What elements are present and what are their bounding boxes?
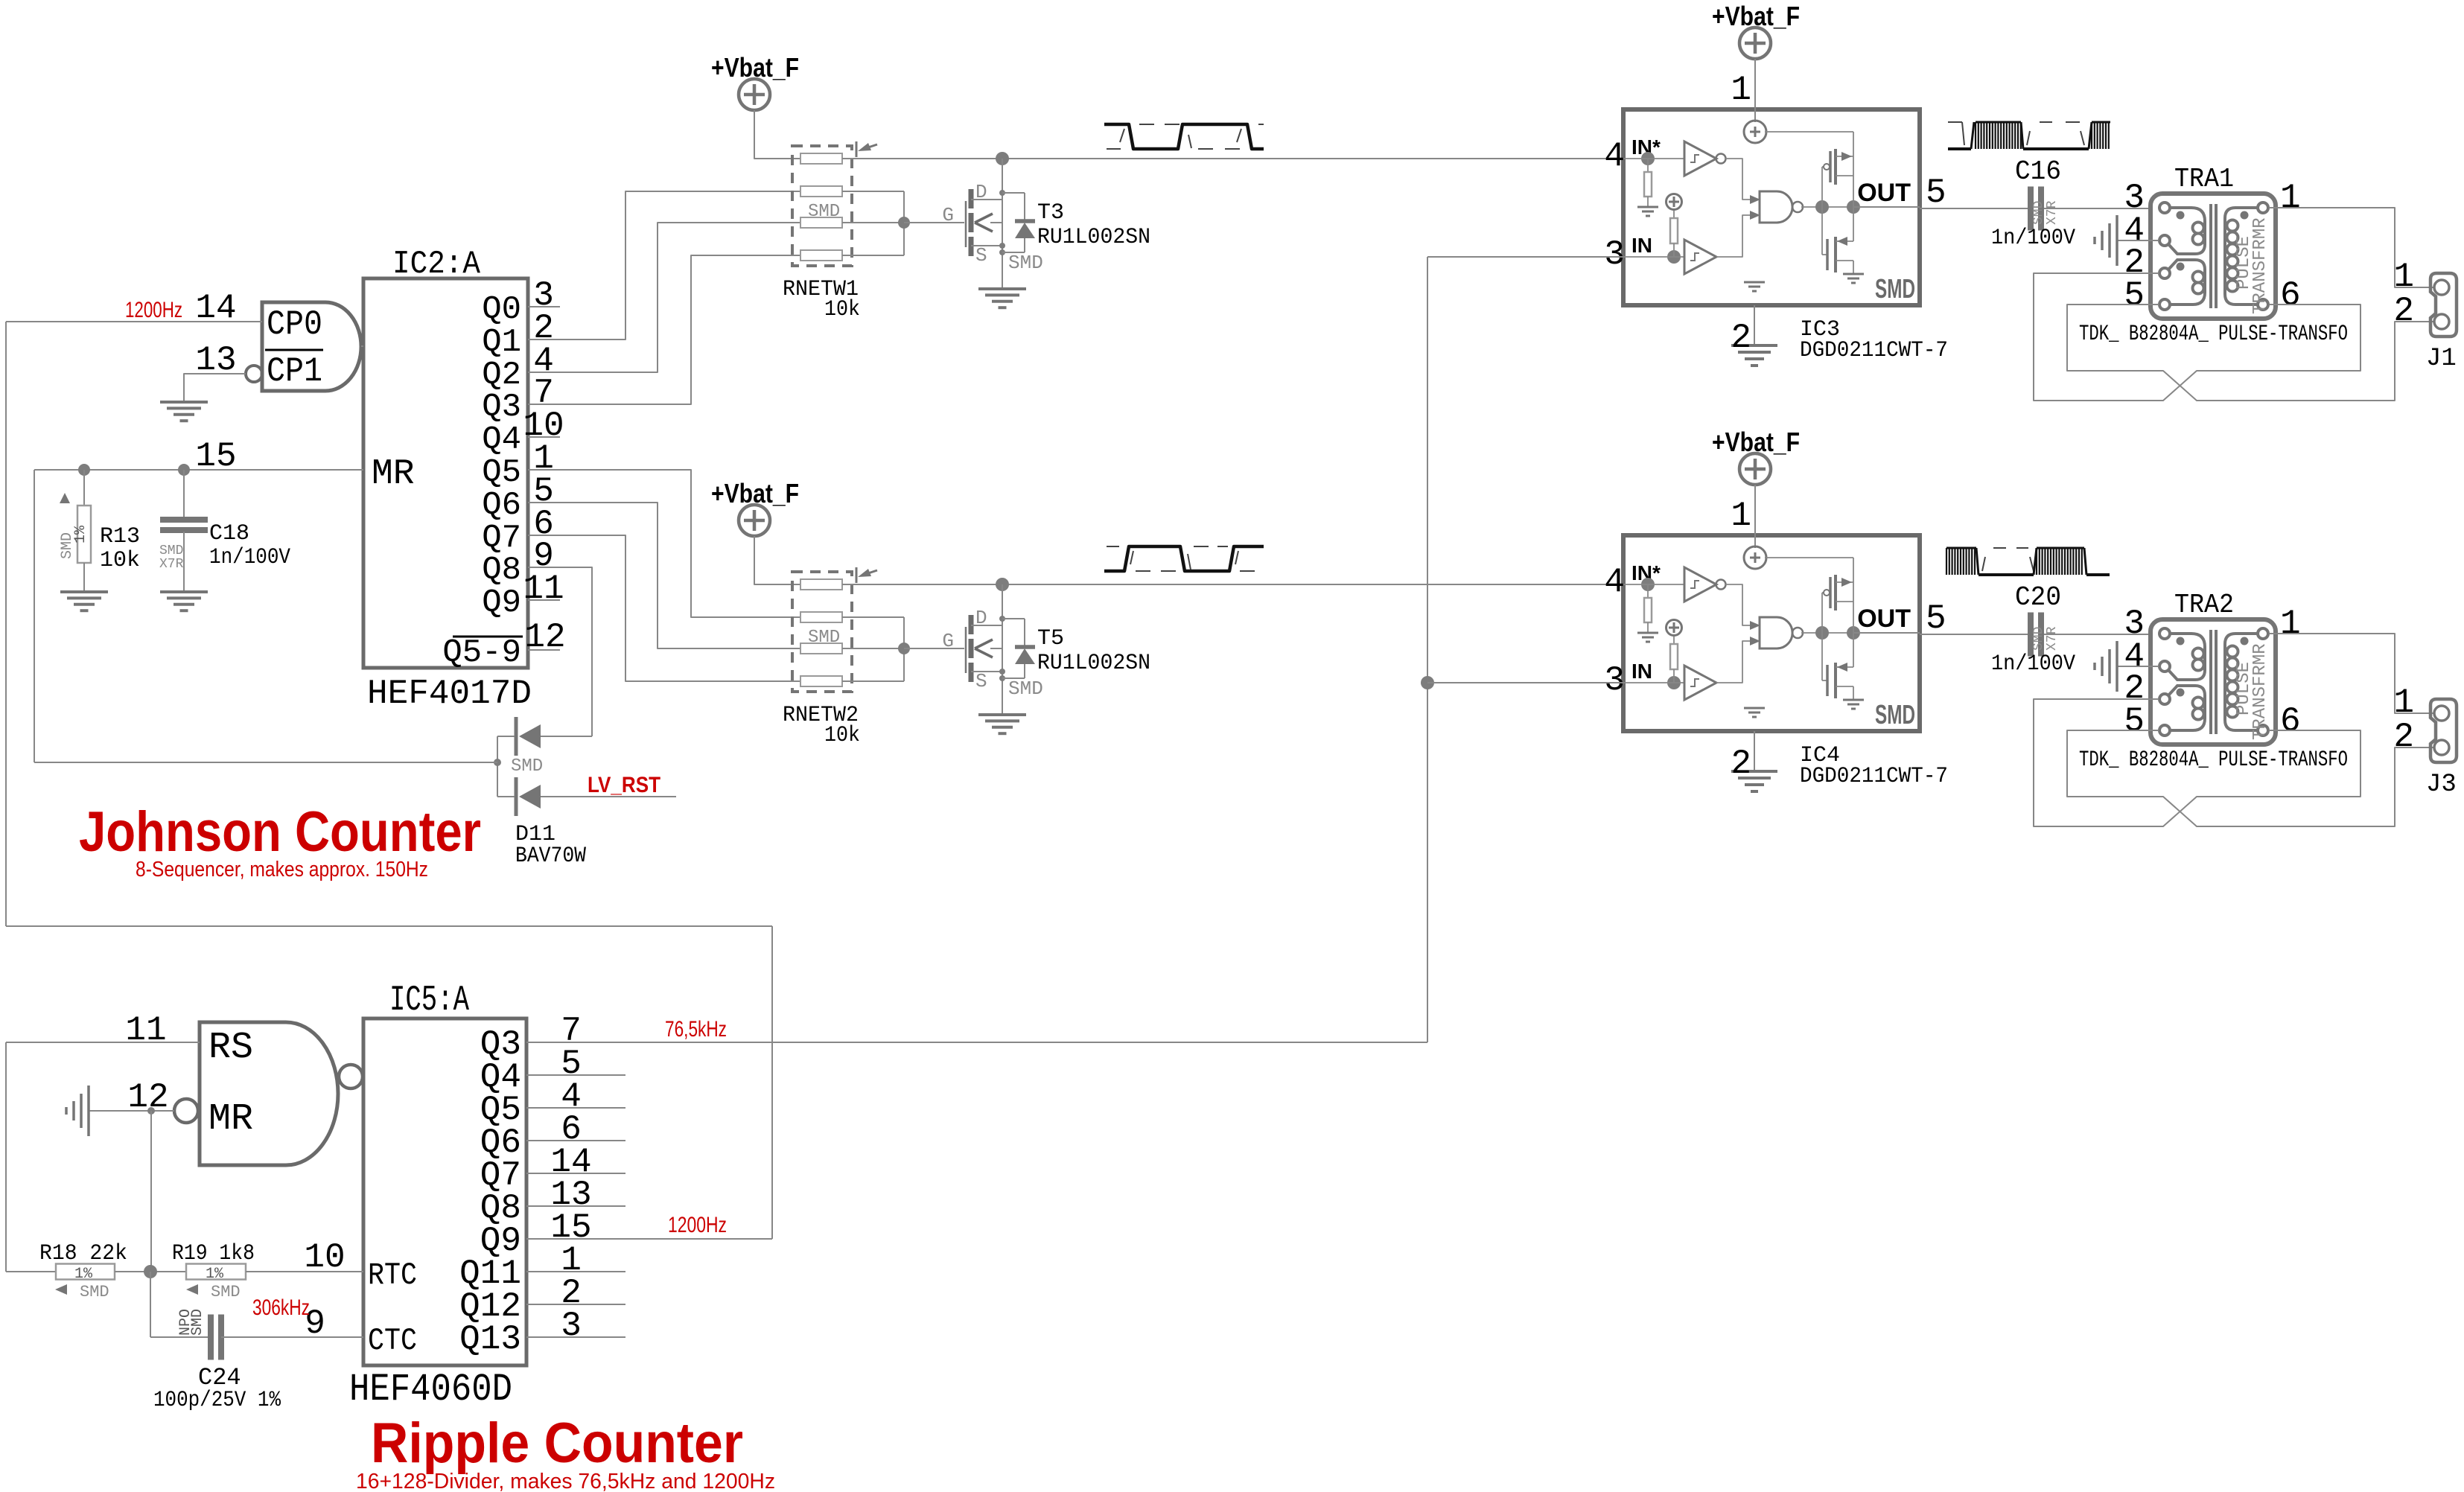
- svg-text:76,5kHz: 76,5kHz: [665, 1017, 727, 1042]
- svg-text:Q13: Q13: [459, 1320, 521, 1359]
- svg-text:MR: MR: [208, 1098, 253, 1141]
- svg-text:11: 11: [125, 1011, 166, 1050]
- svg-text:RU1L002SN: RU1L002SN: [1037, 651, 1150, 676]
- svg-text:5: 5: [2124, 276, 2145, 315]
- svg-text:10k: 10k: [824, 723, 860, 748]
- svg-text:DGD0211CWT-7: DGD0211CWT-7: [1800, 764, 1948, 789]
- svg-text:X7R: X7R: [2045, 626, 2060, 651]
- svg-text:SMD: SMD: [80, 1283, 109, 1301]
- svg-text:1: 1: [2393, 258, 2414, 296]
- svg-text:C20: C20: [2015, 582, 2061, 613]
- svg-text:+Vbat_F: +Vbat_F: [711, 52, 799, 83]
- svg-text:IC5:A: IC5:A: [389, 981, 469, 1021]
- svg-text:Q4: Q4: [482, 421, 521, 459]
- svg-text:5: 5: [1926, 599, 1946, 638]
- svg-text:+Vbat_F: +Vbat_F: [1712, 427, 1800, 457]
- svg-text:R19 1k8: R19 1k8: [172, 1241, 255, 1266]
- svg-text:11: 11: [523, 570, 564, 608]
- svg-text:TDK_ B82804A_ PULSE-TRANSFO: TDK_ B82804A_ PULSE-TRANSFO: [2079, 747, 2348, 773]
- svg-text:3: 3: [1604, 661, 1625, 700]
- svg-text:6: 6: [2280, 276, 2301, 315]
- svg-text:R13: R13: [100, 524, 140, 549]
- svg-text:3: 3: [1604, 235, 1625, 274]
- svg-text:1200Hz: 1200Hz: [125, 298, 182, 322]
- svg-text:306kHz: 306kHz: [252, 1295, 310, 1320]
- svg-text:+Vbat_F: +Vbat_F: [1712, 1, 1800, 31]
- svg-text:Q1: Q1: [482, 324, 521, 361]
- svg-text:10k: 10k: [100, 548, 140, 573]
- svg-text:3: 3: [561, 1307, 582, 1345]
- svg-text:RU1L002SN: RU1L002SN: [1037, 225, 1150, 250]
- svg-text:J1: J1: [2426, 345, 2457, 373]
- svg-text:IC2:A: IC2:A: [392, 246, 481, 283]
- svg-text:1n/100V: 1n/100V: [1991, 226, 2075, 251]
- svg-text:R18 22k: R18 22k: [39, 1241, 127, 1266]
- svg-text:DGD0211CWT-7: DGD0211CWT-7: [1800, 338, 1948, 363]
- svg-text:6: 6: [2280, 702, 2301, 741]
- svg-text:2: 2: [2393, 292, 2414, 331]
- svg-text:S: S: [975, 244, 987, 267]
- svg-text:2: 2: [2393, 718, 2414, 756]
- svg-text:SMD: SMD: [2031, 627, 2046, 651]
- svg-text:CP0: CP0: [267, 305, 322, 344]
- svg-text:1200Hz: 1200Hz: [668, 1213, 727, 1237]
- svg-text:C16: C16: [2015, 156, 2061, 187]
- svg-text:1n/100V: 1n/100V: [1991, 651, 2075, 677]
- svg-text:4: 4: [1604, 563, 1625, 602]
- svg-text:Q8: Q8: [482, 552, 521, 589]
- svg-text:10: 10: [304, 1238, 345, 1277]
- svg-text:S: S: [975, 670, 987, 692]
- svg-text:BAV70W: BAV70W: [515, 844, 586, 869]
- svg-text:Q9: Q9: [482, 584, 521, 622]
- svg-text:SMD: SMD: [2031, 201, 2046, 225]
- svg-text:G: G: [942, 630, 954, 652]
- svg-text:12: 12: [524, 618, 565, 657]
- svg-text:SMD: SMD: [59, 532, 76, 559]
- svg-text:5: 5: [2124, 702, 2145, 741]
- svg-text:16+128-Divider, makes 76,5kHz: 16+128-Divider, makes 76,5kHz and 1200Hz: [356, 1470, 775, 1492]
- svg-text:CTC: CTC: [368, 1323, 417, 1359]
- svg-text:2: 2: [1731, 745, 1751, 783]
- svg-text:1%: 1%: [206, 1266, 224, 1283]
- svg-text:TDK_ B82804A_ PULSE-TRANSFO: TDK_ B82804A_ PULSE-TRANSFO: [2079, 322, 2348, 347]
- svg-text:Q3: Q3: [482, 389, 521, 426]
- svg-text:MR: MR: [372, 454, 415, 494]
- svg-text:T3: T3: [1037, 200, 1064, 226]
- svg-text:1: 1: [2280, 179, 2301, 217]
- svg-text:SMD: SMD: [1008, 252, 1043, 274]
- svg-text:SMD: SMD: [189, 1309, 206, 1336]
- svg-text:TRA1: TRA1: [2174, 164, 2234, 194]
- svg-text:Ripple Counter: Ripple Counter: [371, 1412, 743, 1475]
- svg-text:RTC: RTC: [368, 1257, 417, 1293]
- svg-text:G: G: [942, 204, 954, 226]
- svg-text:CP1: CP1: [267, 352, 322, 391]
- svg-text:D: D: [975, 181, 987, 203]
- svg-text:TRANSFRMR: TRANSFRMR: [2250, 643, 2270, 740]
- svg-text:Q0: Q0: [482, 291, 521, 328]
- svg-text:SMD: SMD: [1008, 678, 1043, 700]
- svg-text:1: 1: [2393, 683, 2414, 722]
- svg-text:SMD: SMD: [511, 756, 543, 777]
- svg-text:10k: 10k: [824, 297, 860, 322]
- svg-text:OUT: OUT: [1857, 179, 1911, 207]
- svg-text:1%: 1%: [74, 1266, 93, 1283]
- svg-text:X7R: X7R: [159, 557, 184, 572]
- svg-text:RS: RS: [208, 1027, 253, 1069]
- svg-text:SMD: SMD: [159, 543, 183, 558]
- svg-text:IN: IN: [1631, 660, 1652, 683]
- svg-text:Q5-9: Q5-9: [442, 634, 521, 672]
- svg-text:OUT: OUT: [1857, 605, 1911, 633]
- svg-text:SMD: SMD: [211, 1283, 241, 1301]
- svg-text:T5: T5: [1037, 626, 1064, 651]
- svg-text:Johnson Counter: Johnson Counter: [79, 800, 481, 864]
- svg-text:HEF4060D: HEF4060D: [349, 1368, 512, 1412]
- svg-text:LV_RST: LV_RST: [588, 773, 660, 797]
- svg-text:HEF4017D: HEF4017D: [367, 675, 532, 713]
- svg-text:8-Sequencer, makes approx. 150: 8-Sequencer, makes approx. 150Hz: [136, 858, 428, 882]
- svg-text:4: 4: [1604, 137, 1625, 176]
- svg-text:SMD: SMD: [1875, 699, 1915, 730]
- svg-text:TRA2: TRA2: [2174, 590, 2234, 620]
- svg-text:SMD: SMD: [808, 628, 840, 648]
- svg-text:2: 2: [1731, 319, 1751, 357]
- svg-text:1: 1: [1731, 71, 1751, 109]
- svg-text:100p/25V 1%: 100p/25V 1%: [153, 1388, 281, 1413]
- svg-text:1: 1: [2280, 605, 2301, 643]
- svg-text:IN: IN: [1631, 234, 1652, 257]
- svg-text:+Vbat_F: +Vbat_F: [711, 478, 799, 509]
- svg-text:J3: J3: [2426, 771, 2457, 799]
- svg-text:Q5: Q5: [482, 454, 521, 491]
- svg-text:1n/100V: 1n/100V: [209, 545, 290, 570]
- svg-text:SMD: SMD: [808, 202, 840, 222]
- svg-text:5: 5: [1926, 173, 1946, 212]
- svg-text:Q6: Q6: [482, 487, 521, 524]
- svg-text:SMD: SMD: [1875, 273, 1915, 304]
- svg-text:C18: C18: [209, 521, 249, 546]
- svg-text:TRANSFRMR: TRANSFRMR: [2250, 217, 2270, 314]
- svg-text:1: 1: [1731, 497, 1751, 535]
- svg-text:X7R: X7R: [2045, 200, 2060, 225]
- svg-text:D: D: [975, 607, 987, 629]
